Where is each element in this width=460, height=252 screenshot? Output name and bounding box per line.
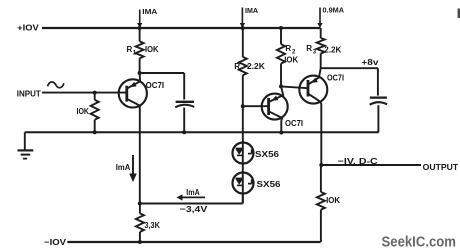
- svg-text:IOK: IOK: [77, 106, 90, 116]
- diode D1 SX56: [233, 143, 254, 164]
- resistor R3 2.2K: [320, 28, 322, 38]
- svg-text:−IOV: −IOV: [44, 237, 66, 247]
- diode D2 SX56: [233, 173, 254, 194]
- svg-text:3,3K: 3,3K: [144, 220, 160, 230]
- svg-text:IOK: IOK: [326, 195, 341, 205]
- resistor R2 10K: [280, 28, 282, 44]
- resistor R1 10K: [139, 28, 141, 41]
- junction C1 to ground rail: [182, 130, 186, 134]
- input signal sine symbol: [48, 82, 64, 88]
- current arrow 1mA (collector): [132, 155, 134, 174]
- resistor 10K input bias: [94, 93, 96, 100]
- wire Q3 base: [281, 86, 308, 88]
- capacitor C1: [183, 73, 185, 100]
- junction R bottom / Q2 base node: [241, 104, 245, 108]
- svg-text:IOK: IOK: [284, 54, 299, 64]
- junction R2 bottom / Q2 emitter / Q3 base: [279, 84, 283, 88]
- junction output node: [319, 163, 323, 167]
- transistor Q1 OC71: [119, 79, 147, 107]
- junction Q2 collector to ground rail: [279, 131, 283, 135]
- junction input / bias resistor: [93, 91, 97, 95]
- current arrow 1mA (diode chain): [183, 196, 206, 198]
- svg-text:OUTPUT: OUTPUT: [423, 162, 459, 172]
- svg-text:IMA: IMA: [245, 6, 259, 15]
- wire emitter node to C1: [140, 72, 185, 74]
- svg-text:R: R: [234, 62, 240, 71]
- svg-text:IOK: IOK: [145, 44, 159, 54]
- current arrow 1MA into R1: [139, 10, 141, 24]
- -10V supply rail: [67, 241, 320, 243]
- transistor Q3 OC71: [299, 76, 327, 104]
- svg-text:R: R: [285, 44, 291, 53]
- resistor 10K output: [320, 165, 322, 192]
- junction -3.4V node at 3.3K: [138, 202, 142, 206]
- junction R2 at rail: [279, 26, 283, 30]
- resistor R 2.2K: [242, 28, 244, 57]
- current arrow 1MA into diode chain: [241, 8, 243, 24]
- wire input line: [42, 92, 127, 94]
- svg-text:ImA: ImA: [186, 187, 200, 197]
- transistor Q2 OC71: [262, 94, 288, 120]
- junction 3.3K to -10V rail: [138, 240, 142, 244]
- junction R1 top: [138, 26, 142, 30]
- ground rail: [25, 131, 379, 133]
- svg-text:+IOV: +IOV: [17, 22, 39, 32]
- ground: [24, 132, 26, 150]
- svg-text:−3,4V: −3,4V: [180, 204, 208, 214]
- wire Q2 base: [243, 105, 269, 107]
- capacitor C2: [377, 68, 379, 95]
- resistor 3.3K: [139, 204, 141, 214]
- wire +8v line: [321, 67, 378, 69]
- wire Q3 collector to output node: [320, 133, 322, 165]
- wire -3.4V node line: [140, 203, 243, 205]
- wire output line: [321, 164, 421, 166]
- svg-text:2.2K: 2.2K: [324, 44, 342, 54]
- junction chain at rail: [241, 26, 245, 30]
- svg-text:SX56: SX56: [255, 149, 279, 159]
- svg-text:R: R: [306, 44, 312, 53]
- svg-text:OC7I: OC7I: [285, 118, 303, 128]
- svg-text:−IV. D-C: −IV. D-C: [338, 156, 378, 166]
- svg-text:INPUT: INPUT: [17, 88, 42, 98]
- svg-text:ImA: ImA: [116, 162, 131, 172]
- current arrow 0.9MA into R3: [319, 8, 321, 24]
- svg-text:+8v: +8v: [361, 57, 378, 67]
- svg-text:OC7I: OC7I: [327, 73, 344, 83]
- svg-text:IMA: IMA: [142, 7, 158, 16]
- svg-text:SX56: SX56: [257, 179, 281, 189]
- junction R1 bottom / Q1 emitter node: [138, 71, 142, 75]
- svg-text:0.9MA: 0.9MA: [323, 6, 345, 15]
- junction bias resistor to ground rail: [93, 130, 97, 134]
- scan mark right edge: [458, 9, 460, 19]
- wire Q1 collector to -3.4V node: [139, 106, 141, 204]
- +10V supply rail: [42, 27, 321, 29]
- wire diode chain: [242, 106, 244, 203]
- svg-text:OC7I: OC7I: [146, 80, 165, 90]
- svg-text:SeekIC.com: SeekIC.com: [382, 235, 457, 251]
- svg-text:2.2K: 2.2K: [247, 61, 266, 71]
- svg-text:R: R: [127, 45, 133, 54]
